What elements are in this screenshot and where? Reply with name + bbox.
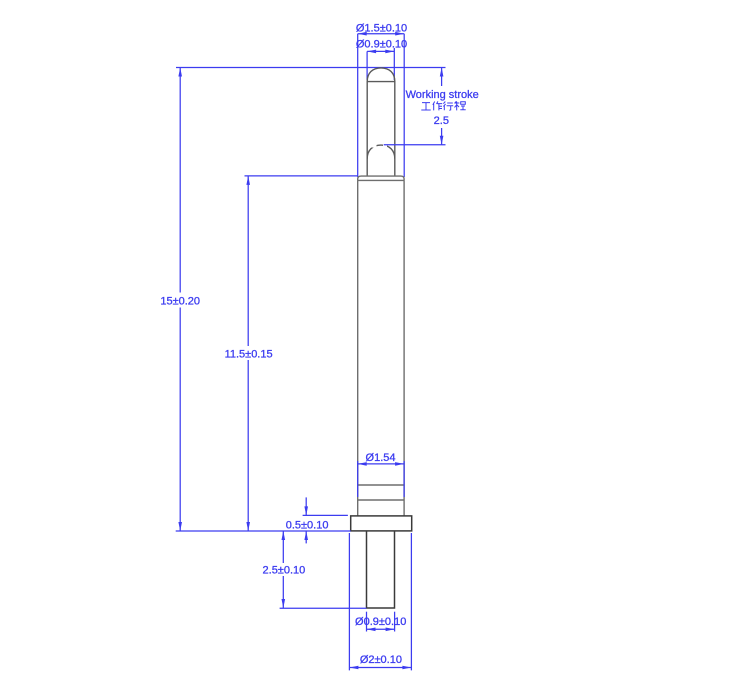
text 工作行程 (hand-drawn glyphs) <box>421 101 465 110</box>
svg-text:0.5±0.10: 0.5±0.10 <box>286 519 329 531</box>
plunger (top pin with dome tip) <box>367 68 395 176</box>
inner dome (plunger depressed position, dashed at apex) <box>367 145 395 159</box>
top extension line (overall height top) <box>176 67 446 69</box>
svg-text:Ø0.9±0.10: Ø0.9±0.10 <box>355 616 406 628</box>
dim line Ø1.54 <box>358 461 404 497</box>
dim 11.5±0.15 <box>245 175 358 177</box>
dim Ø0.9±0.10 (tail diameter) <box>367 612 395 632</box>
dim 15±0.20 <box>179 68 181 532</box>
dim line Ø0.9 <box>367 48 394 80</box>
dim line Ø1.5 <box>358 34 405 177</box>
barrel top cap <box>358 176 404 180</box>
svg-text:15±0.20: 15±0.20 <box>160 295 200 307</box>
barrel body <box>358 180 404 516</box>
dim 2.5±0.10 (tail length) <box>282 531 284 608</box>
svg-text:Ø1.5±0.10: Ø1.5±0.10 <box>356 22 407 34</box>
working stroke bottom extension line <box>384 144 446 146</box>
svg-text:2.5: 2.5 <box>434 115 449 127</box>
svg-text:Ø1.54: Ø1.54 <box>366 452 396 464</box>
tail pin <box>367 531 395 608</box>
bottom extension line (overall height bottom) <box>176 530 351 532</box>
svg-text:Ø0.9±0.10: Ø0.9±0.10 <box>356 38 407 50</box>
svg-text:11.5±0.15: 11.5±0.15 <box>225 348 273 360</box>
svg-text:2.5±0.10: 2.5±0.10 <box>263 565 306 577</box>
tail bottom extension line <box>280 607 367 609</box>
working stroke dimension line <box>441 68 443 145</box>
dim Ø2±0.10 (flange diameter) <box>349 533 411 670</box>
flange <box>351 516 412 531</box>
行 <box>443 102 453 111</box>
作 <box>433 101 442 110</box>
程 <box>454 101 465 110</box>
svg-text:Working stroke: Working stroke <box>406 89 479 101</box>
svg-text:Ø2±0.10: Ø2±0.10 <box>360 654 402 666</box>
dim 0.5±0.10 (flange thickness) <box>303 514 348 516</box>
工 <box>421 103 430 110</box>
